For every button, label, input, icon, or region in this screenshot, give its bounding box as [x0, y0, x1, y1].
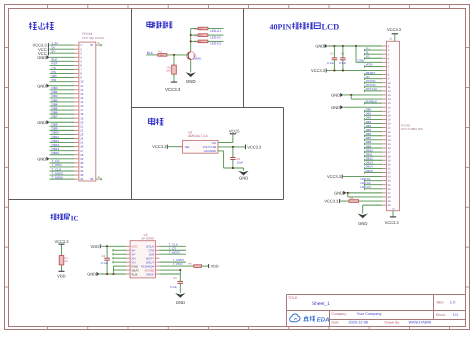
wire GND to AUX row [100, 273, 127, 275]
svg-text:AUX: AUX [131, 272, 137, 276]
wire LCD pin12 row DOTCLK [365, 90, 383, 92]
svg-text:GND: GND [358, 59, 366, 63]
svg-text:T_PEN: T_PEN [173, 262, 183, 266]
wire BLK to R1 [146, 54, 158, 56]
svg-text:GND: GND [176, 300, 185, 305]
resistor R6 [340, 200, 349, 202]
svg-text:GND: GND [37, 55, 46, 60]
wire LCD pin17 row DB0 [365, 110, 383, 112]
svg-text:GND: GND [331, 93, 340, 98]
power flag VCC3.3 below R2 [173, 74, 175, 82]
svg-text:GND: GND [315, 44, 324, 49]
wire pin17 row [50, 109, 75, 111]
wire pin34 row [50, 178, 75, 180]
node VOUT junction [232, 146, 234, 148]
svg-text:VCC3.3: VCC3.3 [152, 144, 167, 149]
wire LCD pin35 LED-K2 [365, 184, 383, 186]
wire pin1 row [50, 44, 75, 46]
wire XP YP XN YN stubs [113, 249, 126, 251]
wire pin24 row [50, 138, 75, 140]
wire LCD pin3 row XL [365, 53, 383, 55]
wire pin18 row [50, 113, 75, 115]
wire pin25 row [50, 142, 75, 144]
wire LCD pin21 row DB4 [365, 127, 383, 129]
wire LCD pin29 row DB12 [365, 159, 383, 161]
resistor R8 PENIRQ pullup [159, 265, 193, 267]
svg-text:10K: 10K [160, 54, 165, 57]
title block [287, 294, 466, 296]
wire pin11 row [50, 85, 75, 87]
wire LCD pin25 row DB8 [365, 143, 383, 145]
resistor R1 [158, 54, 167, 57]
wire pin32 row [50, 170, 75, 172]
svg-text:ADJ/GND: ADJ/GND [204, 149, 216, 153]
wire LCD pin2 row YU [365, 49, 383, 51]
svg-text:1K: 1K [199, 28, 202, 31]
connector FPC34 核心板 [79, 42, 96, 181]
svg-text:R3: R3 [194, 27, 198, 31]
wire LCD pin36 LED-K3 [365, 188, 383, 190]
capacitor C5 0.1uF [178, 280, 184, 282]
svg-text:C1: C1 [330, 51, 334, 55]
wire R6 to pin39 [359, 200, 383, 202]
wire GND pin16 [343, 106, 382, 108]
svg-text:10K: 10K [166, 70, 171, 73]
wire LCD pin8 row RESET [365, 74, 383, 76]
wire GND pin13 pin14 [343, 94, 382, 96]
svg-text:VCC3.3: VCC3.3 [247, 145, 262, 150]
capacitor C2 0.1uF [342, 46, 344, 58]
svg-text:VCC3.3: VCC3.3 [387, 27, 402, 32]
wire pin13 row [50, 93, 75, 95]
wire pin19 row [50, 117, 75, 119]
logo 立创EDA [290, 314, 300, 322]
svg-text:WANGYABIN: WANGYABIN [409, 321, 432, 325]
wire LCD pin28 row DB11 [365, 155, 383, 157]
svg-text:C4: C4 [102, 254, 106, 258]
svg-text:10uF: 10uF [237, 160, 244, 164]
svg-text:VDD: VDD [57, 274, 66, 279]
wire to LED-K2 [208, 34, 224, 36]
capacitor C4 0.1uF [106, 246, 108, 258]
wire pin26 row [50, 146, 75, 148]
wire pin31 row [50, 166, 75, 168]
wire pin10 row [50, 81, 75, 83]
FPC34 pin stubs and numbers [75, 44, 79, 46]
svg-text:LED-K3: LED-K3 [210, 42, 221, 46]
wire LCD pin20 row DB3 [365, 123, 383, 125]
svg-text:Your Company: Your Company [357, 312, 382, 316]
svg-text:R4: R4 [194, 33, 198, 37]
wire to LED-K1 [208, 28, 224, 30]
wire pin27 row [50, 150, 75, 152]
svg-text:XPT2046: XPT2046 [141, 236, 154, 240]
svg-text:GND: GND [239, 176, 248, 181]
svg-text:FPC 0.5MM 40P: FPC 0.5MM 40P [401, 127, 423, 131]
svg-text:S8050: S8050 [193, 57, 202, 61]
wire pin15 row [50, 101, 75, 103]
svg-text:1.0: 1.0 [450, 300, 456, 305]
wire pin2 row [50, 48, 75, 50]
wire LCD pin31 row DB14 [365, 167, 383, 169]
wire pin8 row [50, 73, 75, 75]
svg-text:1K: 1K [199, 34, 202, 37]
svg-text:VCC3.3: VCC3.3 [324, 199, 339, 204]
svg-text:35: 35 [90, 43, 94, 47]
svg-text:DB15: DB15 [52, 151, 60, 155]
wire pin6 row [50, 64, 75, 66]
svg-text:GND: GND [331, 105, 340, 110]
wire VCC3.3 pin33 [343, 176, 382, 178]
svg-text:VCC5: VCC5 [229, 129, 240, 134]
svg-text:R8: R8 [188, 262, 192, 265]
ground GND below FPC40 [358, 214, 368, 219]
wire pin23 row [50, 133, 75, 135]
wire pin30 row [50, 162, 75, 164]
power flag VDD below R7 [59, 270, 65, 272]
svg-text:0.1uF: 0.1uF [327, 61, 334, 65]
section title 核心板 [29, 22, 31, 29]
svg-text:LED-K1: LED-K1 [210, 29, 221, 33]
wire T_MISO [159, 261, 186, 263]
connector FPC40 LCD [387, 41, 400, 210]
block divider lines [131, 9, 133, 200]
svg-text:DOTCLK: DOTCLK [366, 87, 378, 91]
svg-text:Sheet:: Sheet: [436, 313, 446, 317]
wire GND drop to pin5 [355, 46, 357, 62]
svg-text:VCC3.3: VCC3.3 [385, 220, 400, 225]
section title 触摸屏IC [51, 214, 53, 220]
power flag VDD right [201, 265, 208, 267]
svg-text:DB15: DB15 [366, 169, 374, 173]
U3 pin stubs [126, 245, 130, 247]
svg-text:C5: C5 [173, 276, 177, 280]
svg-text:VCC3.3: VCC3.3 [165, 87, 181, 92]
svg-text:R6: R6 [350, 197, 354, 200]
wire LCD pin40 to ground [363, 204, 383, 206]
node base junction [173, 54, 175, 56]
wire LCD pin19 row DB2 [365, 118, 383, 120]
svg-text:GND: GND [37, 157, 46, 162]
wire LCD pin30 row DB13 [365, 163, 383, 165]
wire LCD pin18 row DB1 [365, 114, 383, 116]
svg-text:1/1: 1/1 [453, 313, 458, 317]
svg-text:Drawn By:: Drawn By: [385, 321, 401, 325]
wire LCD pin6 row VDDI [365, 65, 383, 67]
wire R1 to base [167, 54, 188, 56]
wire pin20 row [50, 121, 75, 123]
ground GND below C5 [175, 293, 185, 298]
wire LCD pin15 row ENABLE [365, 102, 383, 104]
wire pin12 row [50, 89, 75, 91]
resistor R3 [191, 28, 199, 30]
wire VDD to VCC pin [101, 245, 126, 247]
svg-text:0R: 0R [65, 260, 68, 263]
svg-text:VCC3.3: VCC3.3 [54, 239, 69, 244]
wire GND pin37 pin38 [346, 192, 382, 194]
svg-text:ENABLE: ENABLE [366, 99, 377, 103]
svg-text:VDD: VDD [91, 244, 100, 249]
svg-text:T_MOSI: T_MOSI [169, 250, 180, 254]
wire pin22 row [50, 129, 75, 131]
svg-text:VDDI: VDDI [366, 63, 373, 67]
svg-text:36: 36 [90, 177, 94, 181]
svg-text:Company:: Company: [332, 312, 348, 316]
svg-text:GND: GND [37, 83, 46, 88]
wire T_CS [159, 249, 186, 251]
svg-text:0.1uF: 0.1uF [170, 285, 177, 289]
wire pin28 row [50, 154, 75, 156]
svg-text:34: 34 [80, 177, 84, 181]
node C3 bottom junction [232, 167, 234, 169]
section title 电源控制 [149, 21, 151, 28]
svg-text:T_MOSI: T_MOSI [52, 175, 64, 179]
section title 电源 [151, 118, 153, 126]
wire to LED-K3 [208, 40, 224, 42]
wire VCC5 to VIN [232, 134, 234, 143]
wire GND VBAT ties [113, 266, 115, 274]
svg-text:0.1uF: 0.1uF [101, 261, 108, 265]
resistor R2 [173, 55, 175, 65]
svg-text:Sheet_1: Sheet_1 [312, 301, 330, 307]
svg-text:VCC3.3: VCC3.3 [327, 174, 342, 179]
svg-text:GND: GND [358, 221, 367, 226]
wire pin3 row [50, 52, 75, 54]
svg-text:EDA: EDA [317, 316, 330, 323]
svg-text:LED-K2: LED-K2 [210, 35, 221, 39]
svg-text:40PIN: 40PIN [270, 22, 292, 31]
svg-text:1K: 1K [199, 41, 202, 44]
svg-text:GND: GND [37, 120, 46, 125]
svg-text:LED-K3: LED-K3 [361, 185, 372, 189]
wire LCD pin11 row HSYNC [365, 86, 383, 88]
resistor R4 [191, 34, 199, 36]
wire pin7 row [50, 68, 75, 70]
wire T_CLK [159, 245, 186, 247]
wire GND rail pin1 [328, 45, 383, 47]
wire pin4 row [50, 56, 75, 58]
wire VCC3.3 to TAB [168, 146, 183, 148]
svg-text:RD: RD [52, 78, 57, 82]
wire LCD pin27 row DB10 [365, 151, 383, 153]
svg-text:YD: YD [366, 55, 370, 59]
svg-text:VCC3.3: VCC3.3 [311, 68, 326, 73]
power flag VCC3.3 bottom of FPC40 [392, 211, 394, 217]
svg-text:Date:: Date: [332, 321, 340, 325]
svg-text:AMS1117-3.3: AMS1117-3.3 [188, 134, 208, 138]
capacitor C1 0.1uF [333, 46, 335, 58]
svg-text:R5: R5 [194, 40, 198, 44]
wire LCD pin26 row DB9 [365, 147, 383, 149]
transistor Q1 S8050 [187, 52, 195, 60]
wire pin16 row [50, 105, 75, 107]
wire T_MOSI [159, 253, 186, 255]
svg-text:VDD: VDD [211, 265, 219, 269]
ground GND of regulator [243, 168, 245, 171]
power flag VCC3.3 output [245, 145, 247, 150]
wire LCD pin24 row DB7 [365, 139, 383, 141]
svg-text:TITLE:: TITLE: [288, 296, 298, 300]
wire IOVDD VREF tie [159, 269, 180, 271]
svg-text:IC: IC [71, 215, 79, 223]
wire ADJ/GND to ground [218, 150, 224, 152]
wire VCC3.3 rail pin7 [327, 69, 382, 71]
wire pin21 row [50, 125, 75, 127]
wire LCD pin34 LED-K1 [365, 180, 383, 182]
wire pin14 row [50, 97, 75, 99]
svg-text:0.1uF: 0.1uF [339, 61, 346, 65]
wire LCD pin22 row DB5 [365, 131, 383, 133]
svg-text:GND: GND [334, 191, 343, 196]
wire LCD pin23 row DB6 [365, 135, 383, 137]
svg-text:TAB: TAB [184, 145, 189, 149]
FPC40 pin stubs and numbers [382, 45, 386, 47]
svg-text:LCD: LCD [322, 22, 340, 31]
svg-text:DB7: DB7 [52, 114, 58, 118]
svg-text:REV:: REV: [437, 301, 445, 305]
resistor R5 [191, 40, 199, 42]
wire pin29 row [50, 158, 75, 160]
wire pin33 row [50, 174, 75, 176]
ground GND below Q1 [190, 60, 192, 73]
svg-text:R1: R1 [159, 50, 163, 54]
svg-text:GND: GND [186, 79, 196, 84]
svg-text:VREF: VREF [146, 272, 154, 276]
wire pin9 row [50, 77, 75, 79]
wire LCD pin10 row VSYNC [365, 82, 383, 84]
node LED rail [190, 29, 192, 52]
wire LCD pin9 row NC [365, 78, 383, 80]
svg-text:2020-12-08: 2020-12-08 [349, 321, 368, 325]
wire LCD pin32 row DB15 [365, 171, 383, 173]
svg-text:FPC 34p 0.5mm: FPC 34p 0.5mm [82, 36, 104, 40]
wire VOUT rail [218, 146, 245, 148]
capacitor C3 10uF [232, 147, 234, 158]
wire pin5 row [50, 60, 75, 62]
wire LCD pin4 row YD [365, 57, 383, 59]
svg-text:GND: GND [87, 272, 96, 277]
svg-text:C2: C2 [341, 51, 345, 55]
